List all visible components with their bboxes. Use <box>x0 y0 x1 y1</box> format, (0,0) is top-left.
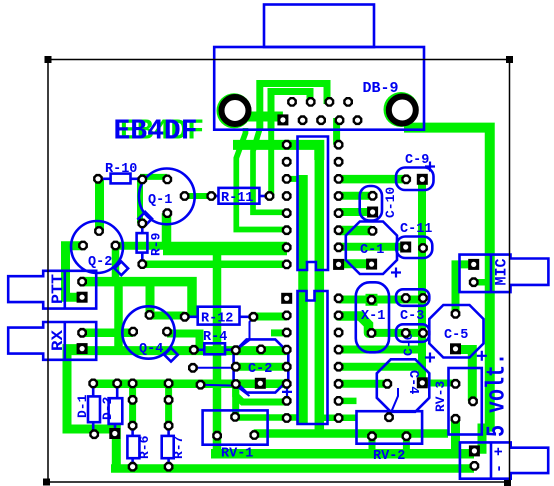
wire C-10 bottom link <box>339 208 373 216</box>
capacitor C-3 <box>396 289 429 306</box>
mount hole ring right <box>384 92 419 127</box>
svg-text:C-2: C-2 <box>248 362 272 377</box>
pads R-7 <box>164 462 174 472</box>
trimmer RV-3 <box>449 368 482 435</box>
wire C-9 link <box>339 175 407 184</box>
wire X-1 bend <box>339 316 369 333</box>
wire RV row <box>254 429 448 438</box>
capacitor C-11 <box>396 237 432 259</box>
svg-text:R-11: R-11 <box>221 191 253 206</box>
wire Q-1 top link <box>140 174 167 180</box>
wire C-1 top link <box>339 226 372 236</box>
pads ic U1 <box>282 140 292 150</box>
wire C-1 mid row <box>339 243 406 251</box>
svg-text:Q-1: Q-1 <box>148 193 172 208</box>
svg-text:C-3: C-3 <box>400 309 424 324</box>
pads RV-1 <box>212 431 222 441</box>
resistor R-11 <box>219 188 260 204</box>
wire R-12 to IC2 <box>253 313 287 321</box>
pads R-6 <box>128 462 138 472</box>
capacitor C-9 <box>396 168 434 191</box>
wire X-1 row bottom <box>372 329 423 337</box>
pads C-2 <box>231 345 241 355</box>
wire Q-4 right bend <box>167 334 200 350</box>
pads C-1 <box>368 226 378 236</box>
wire X-1 pad fill <box>366 294 378 306</box>
transistor Q-4 <box>122 306 174 358</box>
pads C-3 <box>401 293 411 303</box>
wire blue C-2 c <box>236 317 254 351</box>
svg-text:R-6: R-6 <box>137 435 152 459</box>
svg-text:D-1: D-1 <box>75 394 90 418</box>
svg-text:PTT: PTT <box>49 274 67 304</box>
pads X-1 <box>367 295 377 305</box>
pads C-4 <box>382 379 392 389</box>
wire C-1 bottom link <box>339 259 371 268</box>
pads ic U2 <box>281 293 292 304</box>
pads R-10 <box>93 174 103 184</box>
wire MIC stub <box>474 279 490 286</box>
pads R-11 <box>206 191 216 201</box>
resistor R-12 <box>198 307 240 325</box>
trimmer RV-1 <box>203 410 268 444</box>
wire R-12 vertical <box>213 246 222 455</box>
pads R-4 <box>189 345 199 355</box>
wire IC interior vertical 2 <box>315 145 325 434</box>
wire C-5 to RV-3 <box>456 350 473 402</box>
svg-text:C-11: C-11 <box>400 222 432 237</box>
plus C-1 <box>391 268 401 278</box>
pads RV-3 <box>451 379 461 389</box>
wire DB9 pin to R-11 <box>268 128 274 196</box>
wire PTT row <box>82 282 192 317</box>
svg-text:R-4: R-4 <box>203 330 227 345</box>
wire C-2 row 2 <box>236 363 287 371</box>
wire D column 2 <box>165 384 172 426</box>
pads D-2 <box>109 428 120 439</box>
capacitor C-2 <box>234 339 289 392</box>
wire IC1 pin3 stub <box>287 176 300 182</box>
wire main row A <box>116 242 288 250</box>
svg-text:C-1: C-1 <box>360 243 384 258</box>
wire blue C-2 d <box>236 386 250 396</box>
wire row 3 <box>93 379 287 388</box>
pads POWER <box>469 445 480 456</box>
wire C-4 left link <box>339 380 388 388</box>
svg-text:R-7: R-7 <box>171 436 186 459</box>
wire Q-4 top vertical <box>146 282 155 315</box>
wire Q-1 emitter down <box>162 213 172 246</box>
connector POWER <box>460 442 548 478</box>
wire IC2 stub a <box>236 388 287 402</box>
pads PTT <box>77 277 87 287</box>
board outline top copy <box>48 60 510 483</box>
capacitor C-10 <box>360 186 382 221</box>
wire C-4 to RV-3 <box>422 380 455 387</box>
wire DB9 right mount to right bus <box>404 128 490 432</box>
wire Q-4 to R-12 <box>150 312 185 320</box>
wire Q-1 base vertical <box>137 179 143 223</box>
pads D-1 <box>89 429 99 439</box>
svg-text:+: + <box>491 447 508 456</box>
mount hole ring left <box>217 93 252 128</box>
mount hole left <box>222 97 249 124</box>
wire IC2 stub c <box>324 415 357 422</box>
ic U1 body <box>298 137 329 271</box>
connector MIC <box>460 255 549 293</box>
board outline <box>48 60 510 483</box>
pads R-9 <box>137 219 147 229</box>
connector RX <box>8 322 96 360</box>
svg-text:EB4DF: EB4DF <box>114 115 198 148</box>
wire Q-1 to R-11 <box>185 193 212 199</box>
svg-text:RV-2: RV-2 <box>373 449 405 464</box>
wire DB9 mount to pin1 <box>235 112 283 122</box>
wire X-1 row top <box>339 296 423 304</box>
diamond Q-1 <box>138 212 152 226</box>
wire C-5 bottom row <box>339 346 426 354</box>
wire R-10 to Q-2 <box>95 179 104 231</box>
wire IC2 stub b <box>339 398 357 405</box>
resistor R-4 <box>204 343 225 354</box>
capacitor C-5 <box>429 305 483 358</box>
svg-text:DB-9: DB-9 <box>363 80 399 97</box>
connector DB-9 body <box>214 47 424 130</box>
wire bottom bus A <box>211 449 474 459</box>
wire DB9 loop outer <box>260 84 327 131</box>
svg-text:X-1: X-1 <box>361 309 385 324</box>
resistor R-9 <box>137 233 148 253</box>
svg-text:-: - <box>491 464 508 473</box>
svg-text:C-10: C-10 <box>383 187 398 218</box>
diamond Q-4 <box>164 348 178 362</box>
trimmer RV-2 <box>357 411 423 444</box>
resistor R-10 <box>111 174 131 184</box>
svg-text:RX: RX <box>49 329 67 351</box>
plus C-5 <box>477 351 487 361</box>
pads MIC <box>468 259 479 270</box>
svg-text:D-2: D-2 <box>100 396 115 420</box>
wire blue RV-2 <box>389 388 398 417</box>
transistor Q-1 <box>139 169 195 225</box>
capacitor C-1 <box>346 222 397 275</box>
wire row A thick part <box>163 249 287 255</box>
svg-text:Q-4: Q-4 <box>139 342 163 357</box>
pads C-10 <box>368 191 378 201</box>
corner mark top-left <box>45 56 52 63</box>
wire IC2 stub d <box>271 329 287 336</box>
svg-text:Q-2: Q-2 <box>88 255 112 270</box>
svg-text:R-9: R-9 <box>149 232 164 256</box>
capacitor C-6 <box>396 324 429 342</box>
corner mark top-right <box>506 56 513 63</box>
wire C-2 to RV-1 <box>232 384 239 417</box>
wire DB9 diagonal 1 <box>236 128 287 230</box>
svg-text:5 volt.: 5 volt. <box>483 353 512 437</box>
wire blue C-2 b <box>201 384 236 387</box>
wire RV-1 to IC2 <box>235 414 303 421</box>
wire C-4 row <box>339 363 422 371</box>
wire blue C-2 a <box>193 367 236 369</box>
wire RX row <box>82 329 133 338</box>
diode D-2 <box>109 398 123 424</box>
diamond Q-2 <box>115 262 129 276</box>
wire mid vertical <box>114 282 123 351</box>
wire long vertical right <box>418 179 426 382</box>
corner mark bottom-right <box>504 479 511 486</box>
wire IC1 pin1 left bus <box>233 145 319 160</box>
svg-text:R-12: R-12 <box>201 312 233 327</box>
pads R-12 <box>180 312 190 322</box>
mount hole right <box>389 97 416 124</box>
wire R-9 row <box>142 261 287 269</box>
svg-text:RV-3: RV-3 <box>433 381 448 412</box>
wire Q-4 row <box>67 346 287 355</box>
pads RV-2 <box>384 412 394 422</box>
crystal X-1 <box>356 282 389 352</box>
pads C-9 <box>401 174 411 184</box>
pads Q-1 <box>162 175 172 185</box>
pads bottom row <box>88 379 98 389</box>
wire Q-2 to PTT <box>66 246 84 298</box>
resistor R-7 <box>162 436 174 458</box>
pads Q-2 <box>78 241 88 251</box>
wire IC interior vertical 1 <box>298 175 308 424</box>
diode D-1 <box>88 396 100 422</box>
pads Q-4 <box>128 327 138 337</box>
connector PTT <box>8 271 96 309</box>
svg-text:RV-1: RV-1 <box>221 447 253 462</box>
node pads <box>188 363 198 373</box>
wire D column 1 <box>129 384 136 426</box>
svg-text:R-10: R-10 <box>105 162 137 177</box>
pads mid column <box>128 395 138 405</box>
plus C-2 <box>282 387 292 397</box>
wire Q-2 right down <box>112 246 120 282</box>
wire bottom bus B <box>111 464 474 473</box>
pads C-11 <box>400 242 411 253</box>
wire DB9 loop inner <box>271 92 310 131</box>
wire RX return path <box>67 349 116 469</box>
wire right bus to power + <box>482 428 490 454</box>
pads DB-9 <box>277 114 288 125</box>
wire RV-2 stub right <box>403 436 410 454</box>
svg-text:MIC: MIC <box>493 259 511 286</box>
pads C-5 <box>451 309 461 319</box>
wire RV-3 bottom vertical <box>451 419 460 454</box>
plus C-4 <box>425 353 435 363</box>
ic U2 body <box>298 291 328 424</box>
wire DB9 diagonal 2 <box>253 128 287 212</box>
wire MIC to C-5 <box>456 264 474 313</box>
pads C-6 <box>401 328 411 338</box>
svg-text:C-5: C-5 <box>444 328 468 343</box>
capacitor C-4 <box>377 359 430 412</box>
wire C-10 top link <box>339 192 373 200</box>
resistor R-6 <box>127 436 139 458</box>
transistor Q-2 <box>71 221 123 273</box>
corner mark bottom-left <box>43 479 50 486</box>
pads RX <box>77 328 87 338</box>
wire DB9 pin to IC1 pin16 <box>333 118 340 145</box>
wire RV-2 stub left <box>369 436 376 454</box>
plus C-9 <box>425 162 435 172</box>
